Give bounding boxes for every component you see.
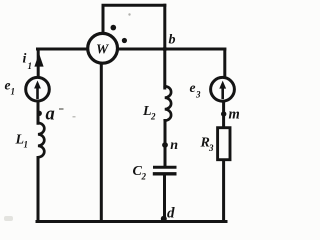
wattmeter polarity dot upper: [111, 25, 117, 31]
svg-text:i: i: [23, 52, 27, 67]
svg-text:n: n: [170, 138, 178, 153]
svg-text:2: 2: [141, 172, 147, 182]
capacitor C2 plates: [153, 167, 177, 174]
node b: [163, 47, 168, 52]
svg-text:b: b: [169, 33, 176, 48]
svg-text:3: 3: [208, 143, 214, 153]
wire top rail (a-b-right corner): [38, 48, 225, 51]
wattmeter W circle: [88, 33, 118, 63]
node d: [161, 216, 167, 222]
node m: [221, 111, 226, 116]
svg-text:2: 2: [150, 112, 156, 122]
svg-text:1: 1: [11, 87, 16, 97]
wattmeter polarity dot lower: [122, 38, 127, 43]
inductor L1: [38, 123, 44, 158]
source e1 circle: [26, 77, 50, 101]
wire left branch vertical: [37, 49, 40, 222]
svg-text:W: W: [96, 41, 110, 56]
source e1 arrow: [34, 81, 41, 100]
svg-text:a: a: [46, 105, 55, 125]
source e3 arrow: [219, 81, 226, 100]
wire wattmeter voltage lead to bottom rail: [100, 63, 103, 221]
wire middle branch vertical (b-L2-n-C2-d): [163, 5, 167, 221]
wire bottom rail: [37, 220, 226, 223]
current arrow i1: [34, 53, 43, 66]
svg-text:e: e: [190, 80, 196, 95]
resistor R3: [218, 128, 230, 160]
node n: [162, 142, 168, 148]
svg-text:1: 1: [28, 61, 33, 71]
noise marks: [4, 13, 131, 221]
node a: [37, 111, 42, 116]
wire top rectangle (wattmeter voltage coil to node b): [103, 5, 165, 33]
svg-text:1: 1: [24, 140, 29, 150]
svg-text:m: m: [229, 107, 240, 123]
wire right branch vertical (e3-m-R3): [224, 49, 225, 222]
inductor L2: [165, 86, 171, 121]
svg-text:3: 3: [195, 90, 201, 100]
svg-text:d: d: [167, 206, 175, 222]
source e3 circle: [211, 77, 235, 101]
